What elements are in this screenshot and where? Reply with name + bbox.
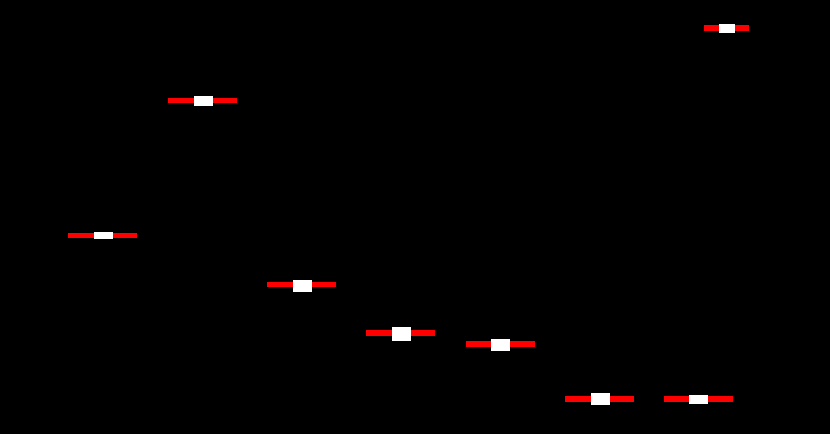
error bar point 1 (x=102) (68, 233, 137, 239)
marker box point 2 (194, 96, 213, 106)
marker box point 7 (689, 395, 708, 404)
marker box point 5 (491, 339, 510, 351)
error bar point 6 (x=599) (565, 396, 634, 402)
legend marker box (719, 24, 735, 33)
error bar point 4 (x=400) (366, 330, 435, 336)
error bar point 7 (x=698) (664, 396, 733, 402)
marker box point 3 (293, 280, 312, 292)
error bar point 2 (x=202) (168, 98, 237, 104)
marker box point 1 (94, 232, 113, 239)
error bar point 5 (x=500) (466, 341, 535, 347)
marker box point 4 (392, 327, 411, 341)
legend sample line (704, 25, 749, 31)
error bar point 3 (x=301) (267, 282, 336, 288)
marker box point 6 (591, 393, 610, 405)
